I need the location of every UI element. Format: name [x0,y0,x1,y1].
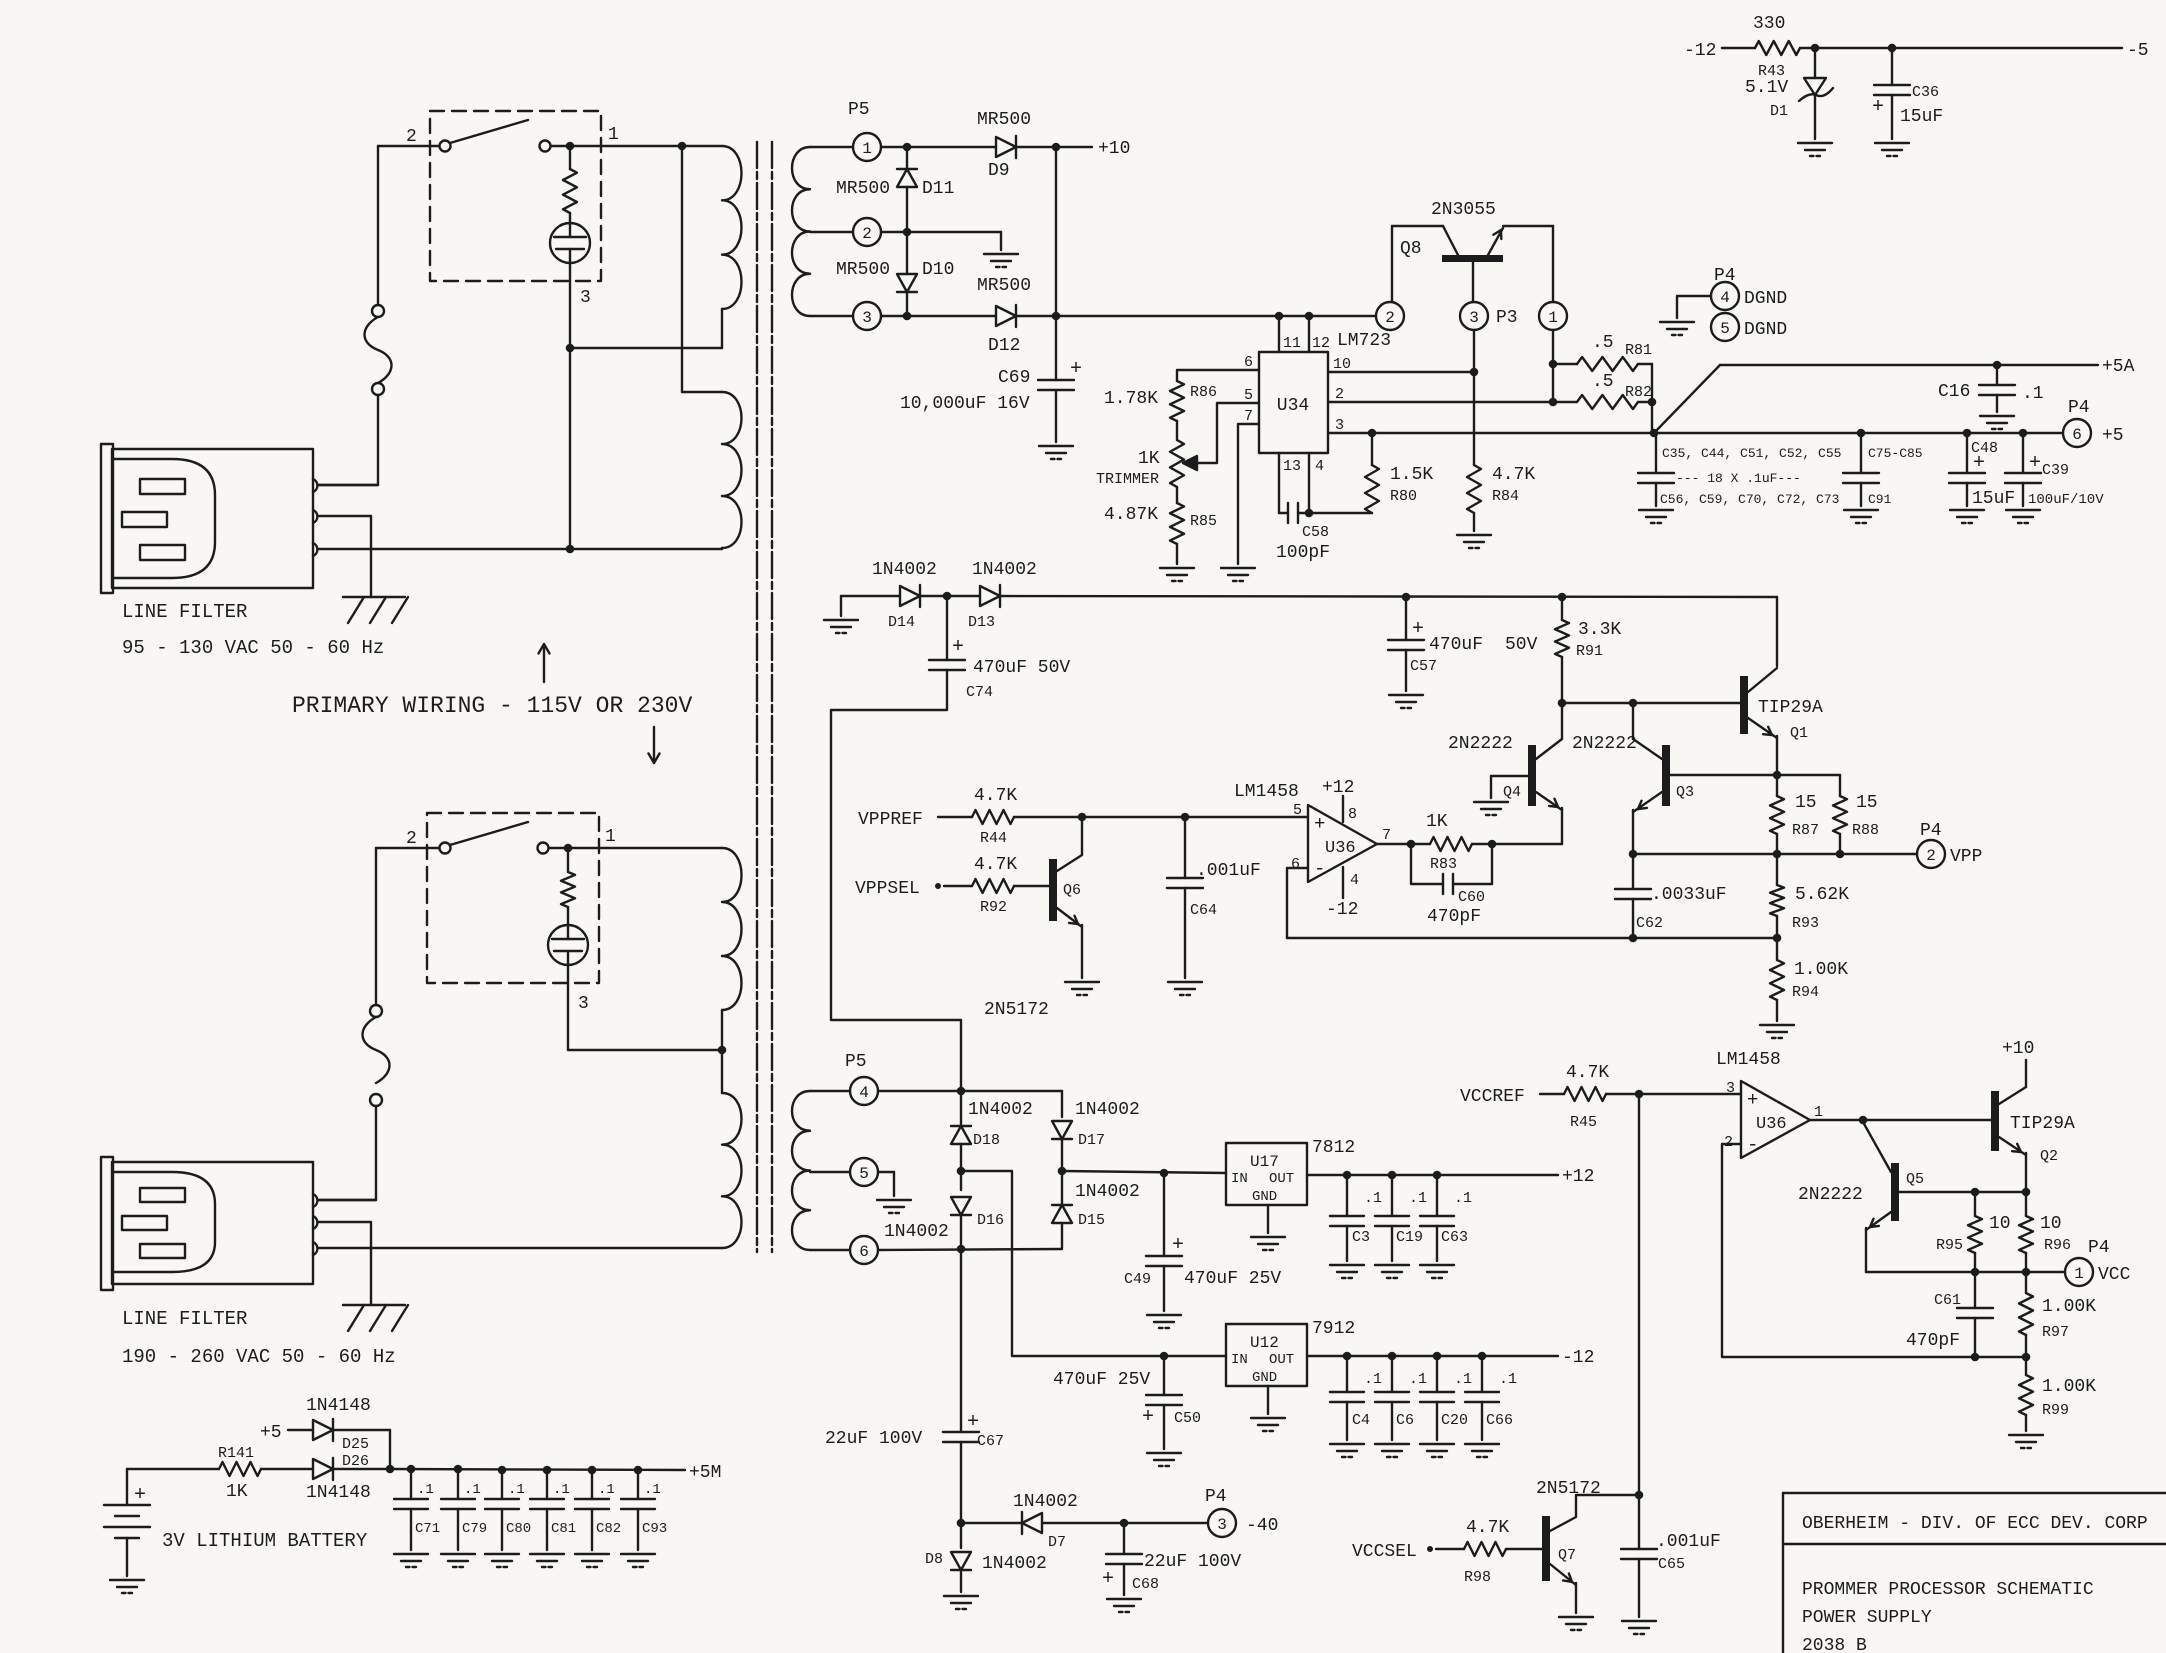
capacitor C62 .0033uF [1615,854,1651,938]
line filter 1 pin [313,543,317,556]
line filter 1 plug plate [101,444,113,593]
svg-text:3: 3 [1726,1080,1735,1097]
wire [841,596,900,616]
svg-text:PRIMARY WIRING - 115V OR 230V: PRIMARY WIRING - 115V OR 230V [292,693,692,719]
svg-text:.1: .1 [1499,1371,1517,1388]
ground [1330,1265,1364,1278]
wire [1014,885,1049,887]
ground [1950,510,1984,523]
label R83 [1430,856,1457,873]
svg-text:D11: D11 [922,179,954,199]
resistor R88 15 [1833,775,1847,854]
pin label 1 [1814,1104,1823,1121]
label R81 [1625,342,1652,359]
svg-text:U34: U34 [1277,396,1309,416]
label C63 [1441,1229,1468,1246]
svg-text:LINE FILTER: LINE FILTER [122,1308,247,1330]
svg-text:D26: D26 [342,1453,369,1470]
label Q3 [1676,784,1694,801]
svg-text:R84: R84 [1492,488,1519,505]
label C3 [1352,1229,1370,1246]
svg-text:VPPREF: VPPREF [858,810,923,830]
svg-text:5.1V: 5.1V [1745,78,1788,98]
wire [957,1442,966,1527]
ground [1639,510,1673,523]
label P4 [1714,266,1736,286]
wire [333,1430,390,1469]
svg-text:+: + [1142,1406,1154,1429]
label 190-260 VAC [122,1346,396,1368]
wire [960,1249,962,1432]
pin label 6 [1244,354,1253,371]
svg-text:7812: 7812 [1312,1138,1355,1158]
capacitor C48 15uF [1949,433,1985,506]
svg-text:D8: D8 [925,1551,943,1568]
label 4.7K [1566,1063,1609,1083]
label 2N2222 [1798,1185,1863,1205]
svg-text:13: 13 [1283,458,1301,475]
label .1 [417,1482,434,1498]
label C36 [1912,84,1939,101]
diode D8 1N4002 [951,1523,971,1592]
capacitor C80 .1 [485,1470,519,1550]
svg-text:2: 2 [406,127,417,147]
label R87 [1792,822,1819,839]
line filter 2 prong [140,1244,185,1258]
pin label 2 [1724,1134,1733,1151]
connector P4-2 [1917,840,1945,868]
pin label 7 [1244,408,1253,425]
label 15 [1795,793,1817,813]
svg-text:R91: R91 [1576,643,1603,660]
capacitor C71 .1 [394,1470,428,1550]
svg-text:VCC: VCC [2098,1265,2131,1285]
wire [1016,143,1092,152]
op-amp U36a [1308,805,1377,882]
label C56,C59,C70,C72,C73 [1660,492,1839,507]
neon lamp [550,213,590,267]
svg-text:1: 1 [1548,309,1558,327]
label C93 [642,1521,667,1537]
wire [568,1046,726,1055]
line filter 2 prong [140,1188,185,1202]
transformer core [757,142,772,1252]
node wire 1 (230V) [549,844,722,853]
label 1N4002 [1075,1100,1140,1120]
svg-text:330: 330 [1753,14,1785,34]
wire [881,228,1001,250]
capacitor C63 .1 [1420,1175,1454,1261]
resistor R99 1.00K [2019,1357,2033,1431]
wire pin 13 [1278,453,1280,513]
svg-text:LM723: LM723 [1337,331,1391,351]
svg-text:5: 5 [1293,802,1302,819]
svg-text:4.7K: 4.7K [1566,1063,1609,1083]
label 18 X .1uF [1676,471,1801,486]
ground [1160,568,1194,581]
wire [376,847,439,849]
svg-text:.1: .1 [553,1482,570,1498]
capacitor C49 470uF 25V [1146,1173,1184,1311]
transformer T1 secondary winding 4-5-6 [792,1091,810,1250]
svg-text:R97: R97 [2042,1324,2069,1341]
svg-text:-: - [1314,858,1325,880]
voltage selector dashed box (230V) [427,813,599,983]
label 15uF [1900,107,1943,127]
svg-text:4: 4 [1720,289,1730,307]
diode D17 1N4002 [1052,1121,1072,1171]
label 1N4002 [1075,1182,1140,1202]
svg-text:1N4148: 1N4148 [306,1396,371,1416]
pin label 2 [1335,386,1344,403]
battery BT1 3V lithium [104,1469,150,1576]
connector P3-3 [1460,302,1488,330]
transformer T1 primary winding D [722,1093,742,1248]
label D26 [342,1453,369,1470]
connector P3-2 [1376,302,1404,330]
wire [810,1249,850,1251]
svg-text:D13: D13 [968,614,995,631]
svg-text:22uF 100V: 22uF 100V [1144,1552,1241,1572]
ground [984,254,1018,267]
wire [810,1171,850,1173]
resistor R95 10 [1968,1192,1982,1272]
svg-text:U17: U17 [1250,1153,1279,1171]
label VCCREF [1460,1087,1525,1107]
wire [1722,1144,2030,1361]
pin label 4 [1315,458,1324,475]
label LM1458 [1716,1050,1781,1070]
svg-text:1N4002: 1N4002 [1075,1182,1140,1202]
label 50V [1505,635,1538,655]
capacitor bank C35 C44 C51 C52 C55 (18 x .1uF) [1638,433,1674,506]
svg-text:C62: C62 [1636,915,1663,932]
svg-text:C93: C93 [642,1521,667,1537]
svg-text:+: + [134,1484,146,1507]
label 4.7K [1492,465,1535,485]
label 7912 [1312,1319,1355,1339]
svg-text:+5: +5 [2102,426,2124,446]
label C19 [1396,1229,1423,1246]
label .1 [1364,1190,1382,1207]
svg-text:2N3055: 2N3055 [1431,200,1496,220]
label 22uF 100V [1144,1552,1241,1572]
wire [567,969,569,1050]
svg-text:C67: C67 [977,1433,1004,1450]
ground [1039,446,1073,459]
svg-text:LM1458: LM1458 [1716,1050,1781,1070]
svg-text:C74: C74 [966,684,993,701]
wire [920,592,980,601]
svg-text:3: 3 [862,309,872,327]
ground [1980,416,2014,429]
ground [1251,1237,1285,1250]
label 2N3055 [1431,200,1496,220]
wire [319,548,570,550]
ground [530,1554,564,1567]
chassis ground [343,597,408,623]
svg-text:VCCREF: VCCREF [1460,1087,1525,1107]
svg-text:3: 3 [580,288,591,308]
svg-text:+5M: +5M [689,1463,721,1483]
capacitor C81 .1 [530,1470,564,1550]
svg-text:.5: .5 [1592,333,1614,353]
resistor R83 1K [1430,837,1472,851]
label 1.00K [1794,960,1848,980]
ground [877,1200,911,1213]
wire [319,1199,376,1201]
line filter 1 plug body [113,459,215,578]
svg-text:+: + [1070,358,1082,381]
svg-text:D16: D16 [977,1212,1004,1229]
wire [957,1167,1226,1361]
svg-text:Q3: Q3 [1676,784,1694,801]
ground [824,620,858,633]
label C75-C85 [1868,446,1923,461]
svg-text:C75-C85: C75-C85 [1868,446,1923,461]
svg-text:.1: .1 [2022,384,2044,404]
label R86 [1190,384,1217,401]
label D14 [888,614,915,631]
wire [318,395,378,485]
capacitor C68 22uF 100V [1102,1523,1142,1595]
capacitor C82 .1 [575,1470,609,1550]
svg-text:IN: IN [1231,1352,1248,1368]
svg-text:+5A: +5A [2102,357,2135,377]
label 1K [1138,449,1160,469]
label Q5 [1906,1171,1924,1188]
svg-text:R98: R98 [1464,1569,1491,1586]
label C20 [1441,1412,1468,1429]
svg-text:6: 6 [1244,354,1253,371]
svg-text:C35, C44, C51, C52, C55: C35, C44, C51, C52, C55 [1662,446,1841,461]
label MR500 [977,276,1031,296]
svg-text:--- 18 X .1uF---: --- 18 X .1uF--- [1676,471,1801,486]
label DGND [1744,289,1787,309]
wire [1472,840,1562,849]
label D15 [1078,1212,1105,1229]
svg-text:.1: .1 [1364,1190,1382,1207]
svg-text:U36: U36 [1756,1115,1787,1134]
label R94 [1792,984,1819,1001]
svg-text:R44: R44 [980,830,1007,847]
svg-text:-12: -12 [1326,900,1358,920]
svg-text:C69: C69 [998,368,1030,388]
svg-text:470uF 25V: 470uF 25V [1184,1269,1281,1289]
svg-text:R95: R95 [1936,1237,1963,1254]
svg-text:1.00K: 1.00K [1794,960,1848,980]
svg-text:C3: C3 [1352,1229,1370,1246]
label MR500 [977,110,1031,130]
capacitor C69 [1038,358,1082,390]
label 3.3K [1578,620,1621,640]
wire [1776,597,1778,666]
label C71 [415,1521,440,1537]
line filter 1 prong [140,479,185,494]
svg-text:1K: 1K [226,1482,248,1502]
label TIP29A [1758,698,1823,718]
label MR500 [836,260,890,280]
svg-text:50V: 50V [1505,635,1538,655]
svg-text:+12: +12 [1322,778,1354,798]
wire [1865,1228,1867,1272]
label 330 [1753,14,1785,34]
svg-text:6: 6 [1291,856,1300,873]
label 470uF 25V [1053,1370,1150,1390]
svg-text:P4: P4 [1205,1487,1227,1507]
resistor R86 1.78K [1170,381,1184,421]
label R93 [1792,915,1819,932]
wire -12 rail [1307,1352,1558,1361]
label 1K [226,1482,248,1502]
line filter 2 pin [313,1242,317,1255]
svg-text:P4: P4 [1920,821,1942,841]
transistor Q8 2N3055 [1442,226,1503,302]
svg-text:.1: .1 [508,1482,525,1498]
title block frame [1783,1493,2166,1653]
label 470uF 25V [1184,1269,1281,1289]
svg-text:C91: C91 [1868,492,1892,507]
op-amp U36b [1741,1081,1810,1158]
line filter 2 pin [313,1194,317,1207]
label C39 [2042,462,2069,479]
svg-text:22uF 100V: 22uF 100V [825,1429,922,1449]
svg-text:TRIMMER: TRIMMER [1096,471,1159,488]
svg-text:+10: +10 [2002,1039,2034,1059]
wire [1800,44,2122,53]
label 22uF 100V [825,1429,922,1449]
label Q6 [1063,882,1081,899]
label 10 [2040,1214,2062,1234]
label -12 [1326,900,1358,920]
chassis ground [343,1305,408,1331]
label VPPREF [858,810,923,830]
svg-text:DGND: DGND [1744,289,1787,309]
svg-text:R92: R92 [980,899,1007,916]
label R88 [1852,822,1879,839]
wire [1632,703,1634,739]
label +5A [2102,357,2135,377]
wire [1561,703,1563,739]
svg-text:1: 1 [2074,1265,2084,1283]
label 1.00K [2042,1377,2096,1397]
transformer T1 primary winding C [722,848,742,1010]
label C74 [966,684,993,701]
svg-text:1.5K: 1.5K [1390,465,1433,485]
label VCC [2098,1265,2131,1285]
label D8 [925,1551,943,1568]
label C64 [1190,902,1217,919]
transistor Q4 2N2222 [1491,739,1562,810]
ground [1330,1444,1364,1457]
svg-text:Q8: Q8 [1400,239,1422,259]
line filter 1 pin [313,510,317,523]
trimmer 1K [1170,440,1197,487]
wire [1436,1548,1464,1550]
label LINE FILTER [122,601,247,623]
ground [1420,1265,1454,1278]
svg-text:C64: C64 [1190,902,1217,919]
wire [878,1172,894,1196]
capacitor C4 .1 [1330,1356,1364,1440]
resistor R94 1.00K [1770,938,1784,1021]
wire [878,1245,1062,1254]
svg-text:95 - 130 VAC 50 - 60 Hz: 95 - 130 VAC 50 - 60 Hz [122,637,384,659]
svg-text:2N5172: 2N5172 [984,1000,1049,1020]
wire [377,146,379,305]
svg-text:D9: D9 [988,161,1010,181]
svg-text:1K: 1K [1426,812,1448,832]
capacitor C64 .001uF [1167,817,1203,978]
wire [1473,330,1475,372]
svg-text:4.7K: 4.7K [1492,465,1535,485]
svg-text:R88: R88 [1852,822,1879,839]
svg-text:U12: U12 [1250,1334,1279,1352]
wire feedback rail [1287,934,1781,943]
label MR500 [836,179,890,199]
label 5.1V [1745,78,1788,98]
svg-text:-40: -40 [1246,1516,1278,1536]
label 1N4148 [306,1396,371,1416]
svg-text:.1: .1 [1454,1190,1472,1207]
wire [1503,226,1553,302]
label 1N4002 [1013,1492,1078,1512]
resistor R93 5.62K [1770,854,1784,938]
diode D9 MR500 [996,136,1016,158]
label R82 [1625,384,1652,401]
svg-text:1.00K: 1.00K [2042,1377,2096,1397]
svg-text:Q7: Q7 [1558,1547,1576,1564]
wire [1267,1386,1269,1414]
label POWER SUPPLY [1802,1608,1932,1628]
svg-text:1: 1 [1814,1104,1823,1121]
connector P4-3 [1208,1509,1236,1537]
label 1.78K [1104,389,1158,409]
svg-text:470uF: 470uF [1429,635,1483,655]
ground [394,1554,428,1567]
ground [1147,1315,1181,1328]
capacitor C74 470uF 50V [929,596,965,670]
capacitor C65 .001uF [1621,1495,1657,1617]
resistor R98 4.7K [1464,1542,1506,1556]
voltage selector dashed box (115V) [430,111,601,281]
switch pin label 1 [605,827,616,847]
svg-text:TIP29A: TIP29A [1758,698,1823,718]
label 3V LITHIUM BATTERY [162,1530,368,1552]
label TIP29A [2010,1114,2075,1134]
label R91 [1576,643,1603,660]
pin label 7 [1382,827,1391,844]
svg-text:11: 11 [1283,335,1301,352]
label P3 [1496,308,1518,328]
svg-text:MR500: MR500 [977,110,1031,130]
svg-text:100pF: 100pF [1276,543,1330,563]
svg-text:P4: P4 [2068,398,2090,418]
label VCCSEL [1352,1542,1433,1562]
wire [1722,47,1755,49]
resistor R87 15 [1770,775,1784,854]
wire [570,548,722,549]
connector P5-2 [853,218,881,246]
wire +5 rail [1654,429,2063,438]
svg-text:C39: C39 [2042,462,2069,479]
ground [1474,802,1508,815]
label -12 [1562,1348,1594,1368]
svg-text:C82: C82 [596,1521,621,1537]
svg-text:R93: R93 [1792,915,1819,932]
label 95-130 VAC [122,637,384,659]
ground [1375,1265,1409,1278]
